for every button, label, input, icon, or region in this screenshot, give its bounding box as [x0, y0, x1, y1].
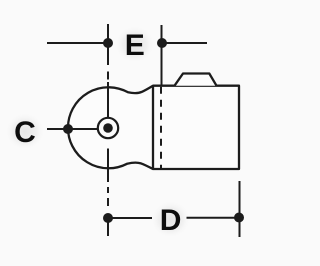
E right leader	[162, 42, 207, 44]
svg-text:C: C	[14, 116, 36, 149]
centerline dash above eye	[107, 72, 109, 80]
label halo C	[5, 112, 45, 150]
boss (trapezoid) on top of cylinder	[175, 74, 217, 86]
centerline dash above D dot	[107, 198, 109, 206]
E left dot	[103, 38, 113, 48]
hole ring	[98, 118, 118, 138]
part body outline (eye + neck + cylinder)	[68, 86, 239, 169]
label halo E	[115, 25, 155, 63]
D right extension	[239, 181, 241, 237]
hole center dot	[103, 123, 113, 133]
C leader	[47, 128, 98, 130]
D right line	[187, 217, 240, 219]
C dot on eye edge	[63, 124, 73, 134]
svg-text:D: D	[160, 204, 182, 237]
centerline dash below eye	[107, 187, 109, 193]
centerline inside eye (vertical)	[107, 82, 109, 118]
D left dot	[103, 213, 113, 223]
E right dot	[157, 38, 167, 48]
svg-text:E: E	[125, 29, 145, 62]
D left line	[108, 217, 152, 219]
E right extension	[161, 25, 163, 86]
cylinder shoulder edge	[152, 86, 154, 169]
E left leader	[47, 42, 108, 44]
D right dot	[234, 213, 244, 223]
centerline below hole	[107, 149, 109, 183]
D left stub below dot	[107, 218, 109, 236]
label halo D	[151, 200, 191, 238]
hidden (dashed) line in cylinder	[160, 87, 162, 169]
E left extension (centerline top)	[107, 24, 109, 65]
